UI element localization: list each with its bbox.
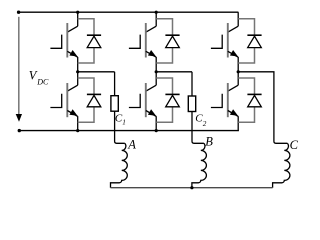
wire: C2 top lead <box>191 72 193 96</box>
diode D4 <box>165 94 179 106</box>
wire: Q3 collector vertical <box>155 12 157 26</box>
capacitor C1 <box>111 96 118 112</box>
node: leg1 top rail junction <box>76 11 79 14</box>
wire: Q5 collector vertical <box>237 12 239 26</box>
svg-text:2: 2 <box>203 120 207 128</box>
inductor A <box>111 143 128 187</box>
transistor Q4 <box>129 83 156 117</box>
node: phase A midpoint <box>76 70 79 73</box>
wire: D2 branch loop <box>78 78 94 122</box>
wire: Q3 emitter vertical <box>155 57 157 72</box>
node: leg1 bottom rail junction <box>76 129 79 132</box>
inductor C <box>273 143 290 187</box>
node: coil B neutral junction <box>190 186 193 189</box>
wire: C1 top lead <box>114 72 116 96</box>
wire: C2 bottom lead to coil B <box>192 112 204 144</box>
wire: Q6 collector vertical <box>237 71 239 85</box>
wire: Q1 collector vertical <box>77 12 79 26</box>
transistor Q6 <box>211 83 238 117</box>
wire: D4 branch loop <box>156 78 172 122</box>
bottom DC rail <box>19 130 239 132</box>
wire: neutral bus <box>111 187 273 189</box>
wire: phase B output <box>156 71 192 73</box>
wire: D1 branch loop <box>78 19 94 63</box>
diode D5 <box>247 35 261 47</box>
wire: phase A output <box>78 71 115 73</box>
transistor Q1 <box>50 23 77 58</box>
node: leg2 bottom rail junction <box>155 129 158 132</box>
transistor Q5 <box>211 23 238 58</box>
diode D1 <box>87 35 101 47</box>
wire: D6 branch loop <box>238 78 254 122</box>
top DC rail <box>19 11 239 13</box>
node: phase C midpoint <box>237 70 240 73</box>
wire: D5 branch loop <box>238 19 254 63</box>
wire: Q2 collector vertical <box>77 71 79 85</box>
node: phase B midpoint <box>155 70 158 73</box>
wire: Q4 emitter vertical <box>155 116 157 130</box>
node: top-left terminal dot <box>17 11 20 14</box>
capacitor C2 <box>188 96 195 112</box>
svg-text:1: 1 <box>122 119 126 127</box>
wire: Q2 emitter vertical <box>77 116 79 130</box>
wire: Q5 emitter vertical <box>237 57 239 72</box>
wire: VDC source vertical <box>18 17 20 114</box>
wire: C1 bottom lead to coil A <box>115 111 125 143</box>
diode D3 <box>165 35 179 47</box>
wire: Q6 emitter vertical <box>237 116 239 130</box>
diode D2 <box>87 94 101 106</box>
wire: Q1 emitter vertical <box>77 57 79 72</box>
svg-text:A: A <box>127 138 136 152</box>
wire: Q4 collector vertical <box>155 71 157 85</box>
wire: D3 branch loop <box>156 19 172 63</box>
svg-text:DC: DC <box>36 78 49 87</box>
wire: phase C output <box>238 72 287 144</box>
svg-text:B: B <box>205 135 213 149</box>
diode D6 <box>247 94 261 106</box>
transistor Q2 <box>50 83 77 117</box>
VDC arrow <box>16 114 22 122</box>
svg-text:C: C <box>290 138 299 152</box>
node: leg2 top rail junction <box>155 11 158 14</box>
node: bottom-left terminal dot <box>18 129 21 132</box>
transistor Q3 <box>129 23 156 58</box>
inductor B <box>192 143 207 187</box>
